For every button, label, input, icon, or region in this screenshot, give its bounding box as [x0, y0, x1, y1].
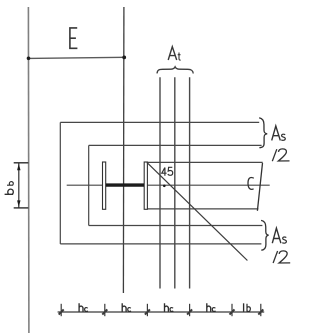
dimension line bottom [58, 311, 265, 313]
rebar line As bottom inner H6 [89, 225, 263, 227]
label 45 [162, 168, 167, 176]
label hc 4 [207, 303, 216, 311]
label At [168, 47, 177, 60]
tick 1 [59, 304, 64, 316]
label hc 1 [79, 303, 88, 311]
label bb rotated [5, 182, 14, 195]
tick 2 [102, 304, 107, 316]
wire E dimension line [28, 57, 124, 58]
node E-line right dot [122, 56, 126, 60]
beam bottom edge H5 [147, 208, 258, 210]
dimension bb top bar [14, 162, 29, 164]
beam top edge H3 [147, 161, 263, 163]
centre-line symbol slash [257, 163, 262, 211]
brace top As/2 [259, 118, 267, 148]
label As top [272, 126, 281, 140]
stirrup bar At line 2 [174, 77, 176, 288]
wire column right edge V2 [122, 7, 125, 293]
stirrup bar At line 1 [159, 77, 161, 288]
dimension bb bottom bar [14, 207, 29, 209]
dimension bb arrow down [17, 200, 20, 207]
brace bottom As/2 [261, 220, 269, 250]
dimension bb arrow up [17, 163, 20, 170]
label hc 2 [122, 303, 131, 311]
rebar line As bottom outer H7 [60, 243, 261, 245]
label E [70, 28, 78, 48]
beam centre line H4 [67, 184, 270, 186]
node centre dot [163, 185, 166, 188]
steel beam right flange [144, 162, 147, 209]
rebar line As top inner H2 [89, 144, 262, 146]
tick 6 [258, 304, 263, 316]
label lb [244, 303, 251, 311]
tick 4 [187, 304, 192, 316]
centre-line symbol C [248, 177, 254, 189]
label /2 top [272, 149, 277, 161]
label /2 bottom [273, 251, 278, 263]
label hc 3 [165, 303, 174, 311]
wire inner joint left edge [88, 145, 90, 225]
tick 3 [145, 304, 150, 316]
stirrup bar At line 3 [189, 77, 191, 288]
wire column left edge V1 [27, 7, 30, 333]
brace over At lines [157, 67, 193, 74]
steel beam left flange [103, 162, 106, 209]
diagonal 45 degree strut [147, 162, 248, 260]
node E-line left dot [27, 57, 31, 61]
dimension bb line [18, 163, 20, 208]
wire outer joint left edge [59, 122, 61, 243]
tick 5 [230, 304, 235, 316]
steel beam web [106, 183, 144, 186]
label As bottom [272, 228, 281, 243]
rebar line As top outer H1 [60, 121, 259, 123]
